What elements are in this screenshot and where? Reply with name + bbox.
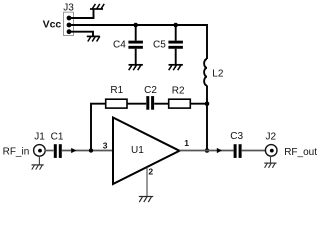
wire J1 to C1: [45, 150, 54, 152]
wire C3 to J2: [242, 150, 266, 152]
wire U1 output to C3: [180, 150, 234, 152]
junction output node: [205, 148, 210, 153]
label J3: [63, 3, 74, 14]
label C1: [51, 132, 64, 143]
arrow output direction: [217, 148, 222, 153]
svg-text:1: 1: [184, 138, 189, 148]
connector J3 pin 3 pad: [67, 29, 72, 34]
wire J3 pin1 to top ground: [69, 9, 94, 18]
svg-text:2: 2: [148, 167, 153, 177]
label L2: [212, 69, 224, 80]
svg-text:C5: C5: [153, 39, 166, 50]
inductor L2: [204, 59, 207, 86]
svg-text:C2: C2: [144, 85, 157, 96]
label RF_in: [3, 147, 30, 158]
capacitor C5: [168, 25, 183, 65]
label J1: [34, 132, 45, 143]
pin number 2: [148, 167, 153, 177]
arrow input direction: [71, 148, 76, 153]
label C2: [144, 85, 157, 96]
wire Vcc rail: [69, 25, 207, 59]
pin number 3: [103, 140, 108, 150]
wire J1 stem to ground: [38, 156, 40, 165]
capacitor C1: [55, 144, 60, 158]
label R2: [172, 85, 185, 96]
ground (chassis, down) at J1: [32, 165, 44, 170]
pin number 1: [184, 138, 189, 148]
resistor R1: [106, 99, 127, 108]
junction Vcc/C4: [133, 23, 138, 28]
svg-text:L2: L2: [212, 69, 224, 80]
svg-text:J1: J1: [34, 132, 45, 143]
junction L2/R2: [205, 101, 210, 106]
svg-text:3: 3: [103, 140, 108, 150]
wire feedback left leg: [91, 104, 106, 151]
connector J1: [34, 145, 46, 157]
wire C1 to input node: [62, 150, 113, 152]
capacitor C4: [128, 25, 143, 65]
svg-text:J3: J3: [63, 3, 74, 14]
label Vcc: [43, 19, 62, 31]
junction input node: [89, 148, 93, 152]
svg-text:C4: C4: [113, 39, 126, 50]
ground (chassis, up) at J3 pin1: [90, 4, 104, 9]
wire J2 stem to ground: [270, 156, 272, 163]
ground (chassis, down) at J3 pin3: [87, 36, 100, 41]
wire R2 to output leg: [190, 103, 207, 105]
svg-text:RF_in: RF_in: [3, 147, 30, 158]
svg-text:C1: C1: [51, 132, 64, 143]
svg-text:C3: C3: [230, 131, 243, 142]
svg-text:J2: J2: [266, 131, 277, 142]
op-amp U1: [113, 118, 180, 185]
wire L2 to output node: [206, 85, 208, 150]
label J2: [266, 131, 277, 142]
svg-text:U1: U1: [131, 145, 144, 156]
wire U1 pin2 stem: [146, 168, 148, 197]
wire J3 pin3 to bottom ground: [69, 32, 93, 37]
connector J2: [265, 145, 277, 157]
label R1: [110, 85, 123, 96]
wire R1 to C2: [127, 103, 146, 105]
label C5: [153, 39, 166, 50]
junction Vcc/C5: [173, 23, 178, 28]
svg-text:R2: R2: [172, 85, 185, 96]
label C3: [230, 131, 243, 142]
connector J3 body: [64, 12, 74, 35]
ground (chassis, down) at C4: [129, 65, 143, 70]
ground (chassis, down) at J2: [264, 163, 276, 168]
label RF_out: [284, 147, 317, 158]
svg-text:RF_out: RF_out: [284, 147, 317, 158]
label U1: [131, 145, 144, 156]
connector J3 pin 1 pad: [67, 16, 72, 21]
ground (chassis, down) at C5: [169, 65, 183, 70]
label C4: [113, 39, 126, 50]
svg-text:R1: R1: [110, 85, 123, 96]
svg-text:Vcc: Vcc: [43, 19, 62, 31]
resistor R2: [169, 99, 191, 108]
connector J3 pin 2 pad: [67, 23, 72, 28]
ground (chassis, down) at U1 pin2: [139, 197, 153, 203]
capacitor C2: [148, 96, 153, 110]
capacitor C3: [235, 144, 240, 158]
wire C2 to R2: [154, 103, 168, 105]
